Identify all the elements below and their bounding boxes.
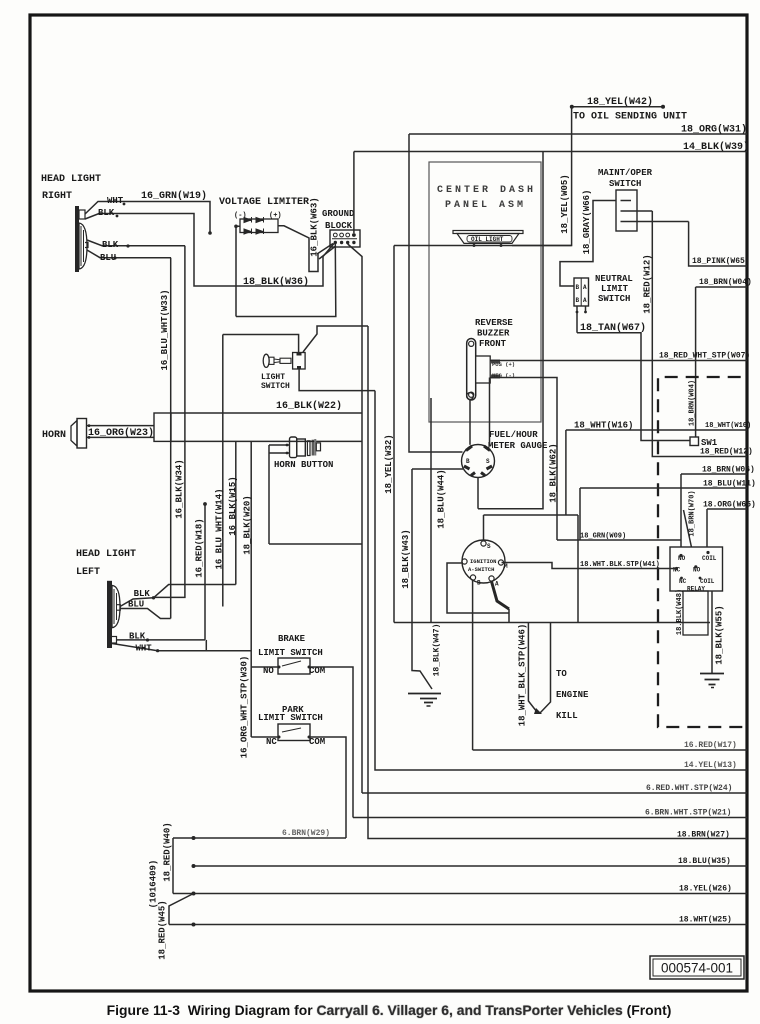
vertical wire 16_BLU_WHT(W33) xyxy=(170,258,172,619)
svg-text:TO: TO xyxy=(556,669,567,679)
wire 6_BRN_WHT_STP(W21) xyxy=(353,809,747,818)
wire BLK headlight left lower xyxy=(117,632,206,642)
vertical wire 18_BLU(W44) xyxy=(430,398,432,623)
svg-text:M: M xyxy=(504,563,508,570)
wire 18_YEL(W05) vertical from sending-unit line to oil light xyxy=(512,107,572,246)
jumper between headlight left BLK and WHT lines xyxy=(205,640,207,651)
wire 18_ORG(W65) drop into relay COIL xyxy=(706,509,708,551)
svg-text:RIGHT: RIGHT xyxy=(42,191,72,202)
svg-text:18_YEL(W05): 18_YEL(W05) xyxy=(560,174,570,233)
svg-text:SWITCH: SWITCH xyxy=(261,382,290,391)
svg-text:KILL: KILL xyxy=(556,711,578,721)
svg-text:OIL LIGHT: OIL LIGHT xyxy=(471,236,504,243)
wire light switch diagonal to W13 drop xyxy=(303,326,368,352)
ground symbol left xyxy=(408,694,441,707)
ground block label xyxy=(322,209,355,231)
svg-text:WHT: WHT xyxy=(107,196,124,206)
wire 6_BRN(W29) short xyxy=(173,829,346,840)
wire ignition A pin thick lead xyxy=(492,582,510,623)
park limit switch label xyxy=(258,705,323,723)
svg-text:NC: NC xyxy=(679,578,687,585)
wire horn button leads xyxy=(269,444,290,544)
svg-text:VOLTAGE LIMITER: VOLTAGE LIMITER xyxy=(219,197,309,208)
neutral limit switch label xyxy=(595,274,633,304)
wire 14_BLK drop 18_BLK(W62) xyxy=(478,152,543,509)
svg-text:18_BLK(W62): 18_BLK(W62) xyxy=(549,443,559,502)
vertical wire 18_BLK(W20) xyxy=(250,441,252,737)
svg-text:16_ORG_WHT_STP(W30): 16_ORG_WHT_STP(W30) xyxy=(240,656,250,759)
svg-text:16_BLK(W34): 16_BLK(W34) xyxy=(175,459,185,518)
svg-text:ENGINE: ENGINE xyxy=(556,690,589,700)
svg-text:HORN: HORN xyxy=(42,430,66,441)
wire BLK headlight right to ground block (18_BLK W36) xyxy=(85,208,334,286)
wire light switch bottom pin to W27 drop xyxy=(299,369,375,391)
wire 14_BLK(W39) drop to ground block pin4 xyxy=(353,152,355,234)
svg-text:HORN BUTTON: HORN BUTTON xyxy=(274,460,333,470)
wire oil light feed line to W32 drop xyxy=(394,245,572,247)
svg-text:18_BRN(W70): 18_BRN(W70) xyxy=(689,490,697,536)
wire ground block pin3 diagonal down W22 drop xyxy=(348,244,362,793)
svg-text:B: B xyxy=(477,580,481,587)
svg-text:14.YEL(W13): 14.YEL(W13) xyxy=(684,761,737,770)
wire 18_BLU(W11) xyxy=(580,480,756,489)
svg-text:18.BLU(W35): 18.BLU(W35) xyxy=(678,857,731,866)
wire BLK2 headlight right lens to W34 xyxy=(87,240,185,250)
wire ignition S feed line xyxy=(484,514,579,516)
wire ignition S pin riser xyxy=(483,515,485,541)
wire 18_ORG(W31) xyxy=(409,124,747,136)
svg-text:B: B xyxy=(576,297,580,304)
svg-text:18_BRN(W06): 18_BRN(W06) xyxy=(702,466,755,475)
svg-text:18_WHT(W16): 18_WHT(W16) xyxy=(574,421,633,431)
svg-text:6.BRN.WHT.STP(W21): 6.BRN.WHT.STP(W21) xyxy=(645,809,731,818)
svg-text:18.WHT(W25): 18.WHT(W25) xyxy=(679,916,732,925)
svg-text:COIL: COIL xyxy=(702,555,717,562)
svg-text:18_BLK(W20): 18_BLK(W20) xyxy=(243,495,253,554)
wire W11 drop to GRN line xyxy=(579,488,581,540)
svg-text:18.BLK(W48): 18.BLK(W48) xyxy=(676,589,684,635)
wire 18_ORG(W65) xyxy=(703,501,756,510)
svg-text:18.ORG(W65): 18.ORG(W65) xyxy=(703,501,756,510)
svg-text:16.RED(W17): 16.RED(W17) xyxy=(684,741,737,750)
head light left label xyxy=(76,549,136,578)
wire 18_BLK(W43)/(W47) down to ground xyxy=(412,469,432,689)
voltage limiter right terminal diagonal to W63 loop xyxy=(278,226,335,272)
wire 16_RED(W17) xyxy=(473,741,747,750)
svg-text:BRAKE: BRAKE xyxy=(278,634,306,644)
wire park NC to W20 xyxy=(251,736,278,738)
wire 18_RED_WHT_STP(W07) from buzzer POS xyxy=(490,352,750,361)
document number box xyxy=(650,956,744,979)
relay lower body box xyxy=(683,591,708,635)
wire 18_TAN(W67) to SW1 line xyxy=(577,333,690,441)
svg-text:PANEL ASM: PANEL ASM xyxy=(445,200,526,211)
svg-text:MAINT/OPER: MAINT/OPER xyxy=(598,168,653,178)
svg-text:A: A xyxy=(495,581,499,588)
svg-text:SW1: SW1 xyxy=(701,438,718,448)
wire brake COM drop xyxy=(310,667,353,818)
wire relay NO-top feed from GRN line xyxy=(680,474,682,555)
svg-text:CENTER DASH: CENTER DASH xyxy=(437,185,536,196)
wire 18_RED(W45) diagonal link xyxy=(169,894,194,925)
wire BLK headlight left top xyxy=(120,585,236,607)
center dash panel asm box xyxy=(429,162,541,422)
wire 18_YEL(W42) arrow line xyxy=(570,105,665,109)
horn junction stub block xyxy=(154,413,171,441)
wire gauge left-top 18_ORG(W31) drop xyxy=(409,134,463,452)
svg-text:BLU: BLU xyxy=(100,253,116,263)
svg-text:16_BLU_WHT(W33): 16_BLU_WHT(W33) xyxy=(160,289,170,370)
svg-text:FUEL/HOUR: FUEL/HOUR xyxy=(489,430,538,440)
wire 18_BRN(W27) xyxy=(368,326,747,840)
svg-text:NC: NC xyxy=(266,737,277,747)
fuel/hour meter gauge label xyxy=(488,430,548,451)
svg-text:18_BLK(W36): 18_BLK(W36) xyxy=(243,276,309,288)
wire 18_BLK(W55) coil to ground xyxy=(711,591,713,673)
head light right lamp symbol xyxy=(75,206,88,272)
wire maint/oper left pin 18_GRAY(W66) xyxy=(560,201,616,287)
wire 14_YEL(W13) xyxy=(375,391,747,770)
svg-text:FRONT: FRONT xyxy=(479,339,507,349)
wire 18_WHT(W16) xyxy=(566,421,751,431)
svg-text:A: A xyxy=(583,284,587,291)
svg-text:WHT: WHT xyxy=(136,644,153,654)
svg-text:18.BRN(W27): 18.BRN(W27) xyxy=(677,831,730,840)
svg-text:B: B xyxy=(466,458,470,465)
wire buzzer NEG line xyxy=(490,378,557,541)
svg-text:REVERSE: REVERSE xyxy=(475,318,513,328)
svg-text:18_BLU(W44): 18_BLU(W44) xyxy=(437,469,447,528)
svg-text:18_RED(W12): 18_RED(W12) xyxy=(643,254,653,313)
park limit switch S6 xyxy=(266,724,325,747)
svg-text:BLK: BLK xyxy=(129,632,146,642)
dashed enclosure box xyxy=(658,377,745,727)
svg-text:16_GRN(W19): 16_GRN(W19) xyxy=(141,190,207,202)
oil light lamp xyxy=(453,231,523,248)
vertical wire 18_YEL(W32) xyxy=(393,246,395,623)
svg-text:B: B xyxy=(576,284,580,291)
svg-text:LIMIT SWITCH: LIMIT SWITCH xyxy=(258,713,323,723)
wire 18_BRN(W04) right xyxy=(696,278,752,287)
wire gauge bottom pin to W62 xyxy=(477,478,479,509)
svg-text:18_PINK(W65): 18_PINK(W65) xyxy=(692,257,750,266)
wire light switch top pin riser xyxy=(223,335,299,353)
wire 18_RED(W12) from switch to right xyxy=(652,211,753,457)
wire 14_BLK(W39) xyxy=(354,141,749,153)
svg-text:16_BLU_WHT(W14): 16_BLU_WHT(W14) xyxy=(215,488,225,569)
ground symbol right xyxy=(700,674,724,688)
wire 18_BRN(W06) xyxy=(681,466,755,475)
svg-text:IGNITION: IGNITION xyxy=(470,558,496,565)
note TO ENGINE KILL xyxy=(556,669,589,721)
svg-text:COM: COM xyxy=(309,737,325,747)
svg-text:A: A xyxy=(583,297,587,304)
svg-text:TO OIL SENDING UNIT: TO OIL SENDING UNIT xyxy=(573,112,687,123)
svg-text:18_BLU(W11): 18_BLU(W11) xyxy=(703,480,756,489)
svg-text:GROUND: GROUND xyxy=(322,209,355,219)
wire ignition left pin M loop xyxy=(447,563,509,613)
svg-text:16_BLK(W22): 16_BLK(W22) xyxy=(276,400,342,412)
switch SW1 xyxy=(690,437,718,448)
long bus line under ignition xyxy=(394,622,710,624)
svg-text:BLK: BLK xyxy=(102,240,119,250)
svg-text:LIMIT: LIMIT xyxy=(601,284,629,294)
wire 18_PINK(W65) xyxy=(689,222,750,267)
wire ground block pin2 down to light switch feed xyxy=(236,244,336,317)
vertical wire 16_BLK(W15) xyxy=(235,441,237,584)
wire bus 16_BLK(W22) upper xyxy=(171,412,362,414)
wire W16 drop to long bus xyxy=(577,515,579,623)
wire WHT headlight left xyxy=(112,644,251,654)
horn button S4 symbol xyxy=(290,437,321,458)
wire W16 riser xyxy=(565,430,567,515)
svg-text:18_RED_WHT_STP(W07): 18_RED_WHT_STP(W07) xyxy=(659,352,750,361)
reverse buzzer B1 xyxy=(467,339,515,401)
svg-text:18_YEL(W42): 18_YEL(W42) xyxy=(587,96,653,108)
wire 18_YEL(W26) xyxy=(173,885,747,896)
svg-text:18_WHT(W16): 18_WHT(W16) xyxy=(705,422,751,430)
svg-text:S: S xyxy=(486,458,490,465)
wire brake NO to W20 xyxy=(251,666,278,668)
fuel/hour meter gauge M1 xyxy=(462,445,495,478)
brake limit switch label xyxy=(258,634,323,658)
light switch S1 key symbol xyxy=(263,353,305,370)
svg-text:6.RED.WHT.STP(W24): 6.RED.WHT.STP(W24) xyxy=(646,784,732,793)
wire BLU headlight left xyxy=(120,600,171,619)
svg-text:BLU: BLU xyxy=(128,600,144,610)
light switch label xyxy=(261,373,290,391)
wire 6_RED_WHT_STP(W24) xyxy=(362,784,747,793)
wire 18_WHT(W25) xyxy=(169,916,747,927)
svg-text:COIL: COIL xyxy=(700,578,715,585)
svg-text:18_BRN(W04): 18_BRN(W04) xyxy=(689,380,697,426)
svg-text:HEAD LIGHT: HEAD LIGHT xyxy=(76,549,136,560)
wire ignition B pin down to 16_RED(W17) xyxy=(472,581,474,751)
svg-text:6.BRN(W29): 6.BRN(W29) xyxy=(282,829,330,838)
svg-text:18_BLK(W55): 18_BLK(W55) xyxy=(715,605,725,664)
svg-text:18_YEL(W32): 18_YEL(W32) xyxy=(384,434,394,493)
wire 18_WHT_BLK_STP(W46) to engine kill arrow xyxy=(528,623,550,715)
svg-text:SWITCH: SWITCH xyxy=(609,179,641,189)
svg-text:BLK: BLK xyxy=(98,208,115,218)
wire W04 drop to SW1 xyxy=(695,287,697,437)
wire 18_BLU(W35) xyxy=(192,857,748,868)
wire 18_GRN(W09) xyxy=(557,533,681,541)
svg-text:A-SWITCH: A-SWITCH xyxy=(468,566,494,573)
svg-text:18_GRAY(W66): 18_GRAY(W66) xyxy=(582,190,592,255)
wire 18_WHT_BLK_STP(W41) ignition to relay NC xyxy=(502,561,676,569)
vertical wire 16_BLU_WHT(W14) xyxy=(222,335,224,607)
wire park COM drop to 6_BRN(W29) xyxy=(310,737,346,838)
relay K1 box xyxy=(670,547,723,593)
svg-text:18_BLK(W47): 18_BLK(W47) xyxy=(433,624,442,677)
svg-text:14_BLK(W39): 14_BLK(W39) xyxy=(683,141,749,153)
wire bus lower xyxy=(171,440,362,442)
brake limit switch S5 xyxy=(263,658,325,676)
svg-text:18_RED(W40): 18_RED(W40) xyxy=(163,822,173,881)
wire gauge left-bottom feed xyxy=(412,468,463,470)
wire 16_RED(W18) with connector dot xyxy=(203,502,207,640)
svg-text:18_BLK(W43): 18_BLK(W43) xyxy=(401,529,411,588)
reverse buzzer label xyxy=(475,318,513,349)
svg-text:NEUTRAL: NEUTRAL xyxy=(595,274,633,284)
ignition switch U1 xyxy=(462,540,508,588)
head light left lamp symbol xyxy=(107,581,120,648)
wire 18_RED(W40) riser xyxy=(172,838,174,894)
svg-text:16_BLK(W15): 16_BLK(W15) xyxy=(228,476,238,535)
voltage limiter left terminal wire down xyxy=(234,225,240,317)
svg-text:SWITCH: SWITCH xyxy=(598,294,630,304)
head light right label xyxy=(41,174,101,202)
svg-text:HEAD LIGHT: HEAD LIGHT xyxy=(41,174,101,185)
wire gauge top-right pin to NEG line xyxy=(489,378,491,447)
svg-text:18_WHT_BLK_STP(W46): 18_WHT_BLK_STP(W46) xyxy=(518,624,528,727)
vertical wire 16_BLK(W34) xyxy=(154,246,185,598)
voltage limiter VR1 with diodes xyxy=(240,217,278,234)
ground block connector xyxy=(330,230,360,247)
neutral limit switch S3 xyxy=(574,278,589,333)
svg-text:METER GAUGE: METER GAUGE xyxy=(488,441,548,451)
svg-text:18_RED(W12): 18_RED(W12) xyxy=(700,448,753,457)
maint/oper switch label xyxy=(598,168,653,189)
svg-text:000574-001: 000574-001 xyxy=(661,961,733,976)
svg-text:18_ORG(W31): 18_ORG(W31) xyxy=(681,124,747,136)
svg-text:BUZZER: BUZZER xyxy=(477,329,510,339)
svg-text:18_RED(W45): 18_RED(W45) xyxy=(158,900,168,959)
caption figure title xyxy=(0,1002,760,1018)
svg-text:BLK: BLK xyxy=(134,589,151,599)
svg-text:18.YEL(W26): 18.YEL(W26) xyxy=(679,885,732,894)
maint/oper switch S2 xyxy=(616,190,689,231)
svg-text:LIMIT SWITCH: LIMIT SWITCH xyxy=(258,648,323,658)
svg-text:LEFT: LEFT xyxy=(76,567,100,578)
wire horn leads 16_ORG(W23) xyxy=(87,424,155,439)
svg-text:18_BRN(W04): 18_BRN(W04) xyxy=(699,278,752,287)
horn H1 symbol xyxy=(71,419,87,449)
wire W70 diagonal into relay NO xyxy=(684,510,696,566)
svg-text:16_ORG(W23): 16_ORG(W23) xyxy=(88,427,154,439)
svg-text:S: S xyxy=(487,543,491,550)
wire BLU headlight right lens to W33 xyxy=(87,250,171,263)
svg-text:LIGHT: LIGHT xyxy=(261,373,285,382)
svg-text:16_RED(W18): 16_RED(W18) xyxy=(195,518,205,577)
connector stub circle above gauge xyxy=(467,393,474,445)
wire WHT headlight right to 16_GRN(W19) xyxy=(85,196,212,235)
svg-text:18.WHT.BLK.STP(W41): 18.WHT.BLK.STP(W41) xyxy=(580,561,660,569)
svg-text:18_GRN(W09): 18_GRN(W09) xyxy=(580,533,626,541)
voltage limiter polarity labels xyxy=(234,212,282,220)
svg-text:16_BLK(W63): 16_BLK(W63) xyxy=(310,197,320,256)
wire horn button feed to W22 drop xyxy=(269,543,362,545)
